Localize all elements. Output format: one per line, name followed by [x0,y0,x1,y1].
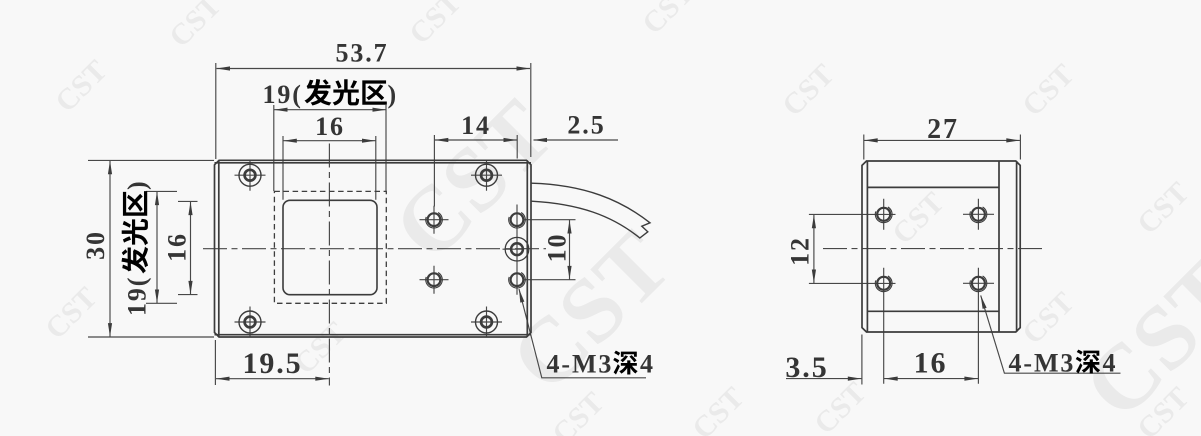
svg-text:16: 16 [315,112,345,141]
svg-text:2.5: 2.5 [567,111,605,140]
svg-text:10: 10 [543,233,572,263]
svg-text:4: 4 [1103,349,1118,378]
svg-text:16: 16 [163,232,192,262]
svg-text:4-M3: 4-M3 [1009,349,1076,378]
svg-text:19(: 19( [123,276,152,316]
svg-text:27: 27 [927,114,959,145]
svg-text:4-M3: 4-M3 [547,350,614,379]
svg-text:19.5: 19.5 [242,347,302,380]
svg-text:30: 30 [81,230,110,260]
svg-text:12: 12 [786,236,815,266]
svg-text:14: 14 [461,111,491,140]
svg-text:): ) [123,179,152,190]
svg-text:3.5: 3.5 [785,351,828,384]
svg-text:53.7: 53.7 [335,39,388,68]
svg-text:): ) [388,80,399,109]
svg-text:19(: 19( [263,80,303,109]
svg-text:16: 16 [914,347,948,380]
svg-text:4: 4 [640,350,655,379]
